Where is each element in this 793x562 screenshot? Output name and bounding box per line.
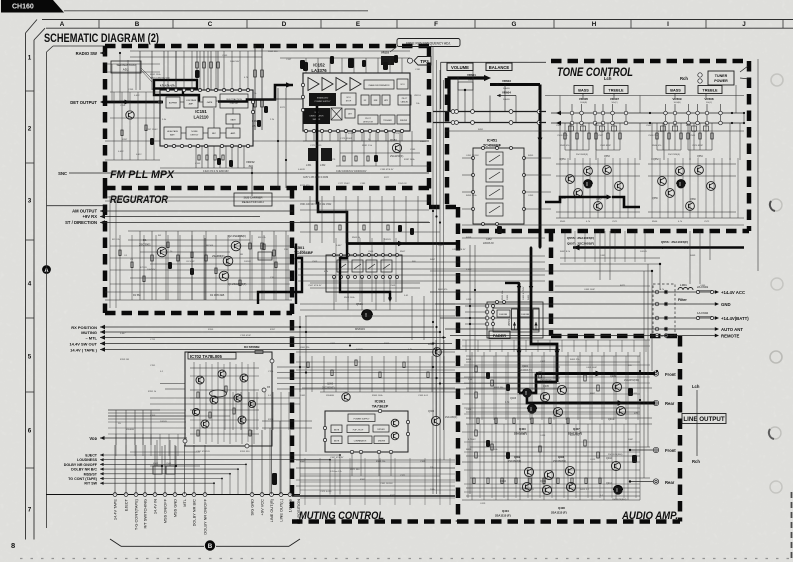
muting lower mesh [300,458,455,505]
extra label scatter 2 [120,133,706,497]
C452 capacitor [497,226,502,234]
audio amp wire mesh [466,352,652,500]
IC501 outline [326,255,402,292]
Q362 external transistor [431,416,440,425]
BALANCE label box [486,63,512,71]
IC702 internal transistors [196,370,248,428]
fader feed wires [465,245,487,494]
FM PLL MPX block border [105,46,429,207]
tuner power connector [698,73,702,77]
IC152 matrix X box [331,108,342,120]
volume section dashed border [429,78,458,207]
IC151 pins bottom [164,144,249,147]
IC151 NFC [208,128,220,138]
left row band [25,33,27,540]
FREE RUN FREQUENCY ADJ box [397,39,460,47]
TREBLE box R [698,86,722,94]
muting block wires [296,340,460,476]
grid header band [42,19,793,21]
IC451 outline [473,148,524,224]
punch hole 2 dark [770,199,782,211]
mid horizontal wires under tone [298,256,545,281]
tone bottom transistor type labels [567,236,688,250]
sig path wire lower right [430,270,653,284]
tone bus line 3 [445,130,744,132]
right edge streak [791,492,793,562]
CH160 corner tab [1,0,64,13]
audio amp bottom type labels [495,506,567,518]
IC451 switch cells [486,152,503,216]
IC152 pin stubs bottom [306,133,402,142]
audio amp terminal stubs [629,449,653,483]
scan speckle [0,0,1,1]
tape control wires [100,454,341,494]
IC152 HPF box [382,95,390,105]
audio amp thick meander [519,382,557,393]
TREBLE box L [604,86,628,94]
tone RC networks [564,123,713,150]
IC152 PILOT CANCEL [398,95,411,105]
line output terminal front upper [653,371,658,376]
IC702 internal resistors [197,386,251,436]
punch hole 4 [770,351,782,363]
TP3 test point [407,58,412,63]
connector B pins group 2 [250,493,292,497]
regurator right section wires [300,196,440,243]
fader box pins [485,301,505,326]
volume bus pins [451,110,541,125]
VR502 fader pot [497,310,510,317]
Q501 muting transistor [362,310,373,321]
IC702 outline [185,352,272,446]
FM left column transistor [126,111,134,119]
regurator extra wires [110,235,290,300]
IC152 VCO STOP [341,93,356,105]
power output labels [668,290,749,339]
IC361 MUTE 2 [331,436,342,444]
fuse F901 [696,290,699,293]
line output terminal rear lower [653,479,658,484]
audio amp extra mesh [462,340,650,500]
regurator resistors [151,243,275,261]
regurator transistor Q4 [219,271,229,281]
VOLUME label box [447,63,473,71]
tone cluster wires [462,158,744,225]
audio amp upper transistors [522,382,625,416]
regurator tiny labels [130,254,244,297]
thick path to tone area with arrow [347,242,460,245]
tone bus pot pins [570,111,722,125]
FM thick signal path to IC152 [218,85,293,102]
muting tiny labels [300,343,436,463]
audio amp thick line front upper [536,372,655,375]
IC152 thick internal feed [316,106,319,131]
FM top resistors [196,62,264,107]
audio amp lower labels [500,454,627,501]
component labels below IC151 [195,163,229,173]
balance thick path [490,83,540,86]
IC361 pins [323,409,409,453]
tone Rch transistors [658,166,716,211]
tone thick return arrow [573,246,744,249]
left rail stub wire [47,205,106,207]
FM top bus verticals [168,51,410,90]
VR601 network wires [448,62,516,123]
IC702 internal wires [190,362,259,444]
FM misc capacitor blobs [257,55,398,127]
audio amp thick feed 1 [518,348,521,393]
tone vertical drops [560,94,740,161]
IC152 pins bottom [304,129,403,132]
FM tiny label scatter [122,51,421,185]
connector B outline bracket [110,539,300,546]
punch hole 5 dark [769,427,781,439]
TUNER POWER box [708,71,734,85]
IC151 GATE [203,97,216,107]
fuse F902 [696,316,699,319]
Q151 transistor [392,143,401,152]
volume thick path with arrow [449,78,484,112]
regurator tiny labels [112,235,416,299]
IC702 area tiny labels [118,365,274,453]
IC361 MUTE 1 [331,425,342,433]
muting mid thick path 2 [340,244,390,301]
IC152 DF box [361,95,369,105]
IC152 DET box [345,109,355,118]
IC451 pins [472,147,526,226]
line output terminal front lower [653,447,658,452]
SUB CARRIER REJECTION ADJ box [234,193,272,206]
IC702 current source ellipse [210,390,227,397]
regurator transistor Q3 [223,256,233,266]
IC152 MIN box [371,95,380,105]
power feed wires [430,291,667,337]
muting mid wires [300,296,455,340]
mid vertical wire bundle [433,46,444,494]
AUDIO AMP block border [458,336,680,522]
IC152 VCO box [397,79,408,89]
FADER label box [489,331,510,339]
VR151 highlighted resistor network box [154,80,197,89]
regurator transistor D1 [157,247,167,257]
main thick vertical to fader [539,85,542,248]
grid marker A circled [42,265,51,274]
tone bottom thin line [462,237,545,239]
VR501 fader pot [519,310,532,317]
audio amp lower transistors [522,461,622,494]
punch hole 3 [771,278,783,290]
tone bus entry arrows [556,111,561,116]
bottom page edge dots [20,558,790,560]
L151 coil block [308,148,317,161]
muting area extra wires [296,352,455,486]
volume area outline [441,62,546,109]
tone Lch transistors [566,166,624,211]
IC702 corner pins [183,359,274,448]
FM bus wires mid [105,88,429,188]
IC152 PILOT DETECTOR [358,115,378,124]
IC501 thick connection [295,258,297,304]
REGURATOR block border [105,188,292,313]
IC501 crossing verticals [336,238,396,302]
IC152 left pins [301,83,304,111]
tone Lch transistor labels [560,154,610,201]
line output terminal rear upper [653,400,658,405]
left lower mesh wires [108,410,186,456]
FM lower right wires [303,131,429,166]
IC361 DRIVER 2 [374,436,389,444]
LINE OUTPUT label box [682,414,726,424]
volume bus line 2 [433,122,546,124]
IC361 FLIP-FLOP [347,425,369,433]
KM relay boxes [153,466,162,474]
IC151 side pins [158,100,161,103]
VR153 pot dark [381,56,394,65]
IC152 limiter amp triangles [308,78,361,91]
muting mid thick path [258,244,302,305]
fader thick to amp 1 [518,338,521,348]
fader thick to amp 2 [531,338,557,348]
audio amp caps [486,372,637,463]
IC451 side wires [462,158,551,209]
inner frame corner [47,46,54,52]
IC702 output pin [262,388,266,392]
regurator left verticals [105,196,430,308]
tone Rch transistor labels [652,154,703,201]
tone control tiny labels [430,125,710,261]
MUTING CONTROL block border [292,188,458,522]
audio amp tiny labels [466,359,638,505]
connector B riser wires [115,430,290,495]
IC151 internal wires [180,101,233,133]
center vertical pair [299,316,301,494]
Q360 transistor [342,393,350,401]
frame corner bevel [26,20,38,34]
audio amp upper labels [505,365,639,421]
fader area outline [487,302,543,338]
IC152 SUB DEMODULATOR MATRIX [303,108,330,124]
tone bus line 2 [551,122,744,124]
power terminals [655,290,668,337]
DET OUTPUT thick wire [103,101,163,104]
regurator capacitors [168,262,172,269]
FM top capacitors [195,58,388,78]
IC151 SUBTRACTION CIRCUIT [220,94,248,108]
mid horizontal wire bundle [108,367,560,419]
IC361 DRIVER 1 [373,425,389,432]
L152 coil block [321,148,332,161]
muting line above label [292,495,455,497]
fader thick stub [505,282,519,284]
IC151 GATE 2 [226,114,240,124]
IC151 AMP [226,128,240,138]
TONE CONTROL block border [462,61,749,336]
IC151 HIGH PASS AMP [164,127,181,139]
FM top area wires [130,45,410,130]
L901 filter coil [678,288,693,291]
connector B pin labels group 1 [112,498,207,534]
audio amp left dashed border [456,207,461,522]
IC702 area bottom wires [150,446,200,466]
tape control labels [64,453,104,485]
audio amp thick feed 2 [556,348,559,382]
fader rotated component labels [502,286,530,300]
tone bus line 1 [551,112,744,114]
volume bus line 1 [433,111,546,113]
regurator transistor Q2 [231,241,241,251]
connector B pins group 1 [113,493,207,497]
fader inner box [493,308,539,332]
IC361 outline [325,411,408,452]
tone top feed wires [545,85,744,123]
IC361 POWER SUPPLY [348,414,375,422]
top edge line [64,10,368,12]
IC151 LOW PASS AMP [184,96,198,108]
audio amp resistor hatch bottom [473,418,601,484]
power terminal dashed box [653,284,675,336]
IC152 DRIVER [397,115,410,124]
IC151 LA2110 outline [160,90,253,146]
connector B pin labels group 2 [249,498,301,524]
IC151 NOISE DETECT [186,127,203,139]
bottom area vertical wires [150,392,300,430]
SEPARATION ADJ box [111,61,141,73]
BASS box L [574,86,593,94]
tone bus right junction dots [649,112,745,124]
right area long verticals [644,231,710,478]
tone thick path Lch [545,197,607,202]
right inner frame line [757,59,759,271]
KM boxes wires [130,440,200,466]
thick path IC152 down to muting area [317,131,347,244]
IC501 switch cells [337,260,392,272]
IC702 TA78L005 label [188,353,236,360]
FM lower component labels [303,171,367,179]
IC152 STABILIZED POWER SUPPLY [309,93,336,106]
IC501 lower wires [310,277,420,310]
punch hole 1 [771,74,783,86]
regurator wires [105,231,292,300]
IC152 TRIGGER [380,115,395,124]
wire risers between IC702 and IC361 [262,421,312,494]
IC152 PHASE DISCRIMINATOR [364,80,394,89]
extra fm left wires [105,53,160,102]
mid right mesh between tone and amp [555,231,650,292]
misc dots on buses [119,52,658,467]
fader thick vertical 1 [518,283,521,338]
tone small cap labels [557,135,696,137]
audio amp thick line rear upper [560,402,655,405]
punch hole 6 [770,481,782,493]
IC501 pins [333,254,399,279]
connector B pin row line [46,494,300,496]
FM thick signal path upper [154,89,183,96]
grid marker B circled [205,540,215,550]
IC361 COMPARATOR [348,436,372,444]
left long verticals to connector [108,410,230,445]
IC361 internal transistors [391,419,399,427]
left rail wire [46,52,48,528]
IC152 outline [303,73,410,131]
IC702 internal mesh [190,364,259,442]
components below IC151 [160,146,253,168]
audio amp resistors [475,366,599,458]
tone to amp vertical wires [560,231,661,290]
FM left column wires [110,92,160,160]
IC151 pins top [166,88,249,91]
IC151 BUFFER [166,97,180,108]
BASS box R [666,86,685,94]
fader thick vertical 2 [530,248,533,339]
